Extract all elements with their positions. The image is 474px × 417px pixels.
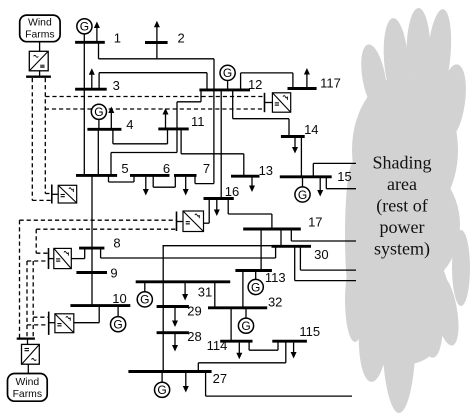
svg-text:G: G <box>80 20 89 34</box>
svg-text:12: 12 <box>248 77 262 92</box>
svg-text:area: area <box>387 174 417 194</box>
svg-text:10: 10 <box>112 291 126 306</box>
svg-text:15: 15 <box>337 169 351 184</box>
svg-text:32: 32 <box>268 295 282 310</box>
svg-text:G: G <box>94 105 103 119</box>
svg-text:G: G <box>241 319 250 333</box>
svg-text:4: 4 <box>126 117 133 132</box>
svg-text:power: power <box>380 217 425 237</box>
svg-text:6: 6 <box>163 161 170 176</box>
svg-text:29: 29 <box>187 304 201 319</box>
svg-text:13: 13 <box>259 163 273 178</box>
svg-text:27: 27 <box>213 371 227 386</box>
svg-text:Wind: Wind <box>28 18 52 29</box>
svg-text:7: 7 <box>203 161 210 176</box>
svg-text:G: G <box>113 318 122 332</box>
svg-text:Farms: Farms <box>25 30 54 41</box>
svg-text:115: 115 <box>299 324 320 339</box>
svg-text:G: G <box>251 280 260 294</box>
svg-text:2: 2 <box>177 31 184 46</box>
svg-text:14: 14 <box>304 122 318 137</box>
svg-text:G: G <box>298 188 307 202</box>
svg-text:5: 5 <box>121 161 128 176</box>
svg-text:16: 16 <box>225 184 239 199</box>
svg-text:117: 117 <box>320 76 341 91</box>
svg-text:17: 17 <box>308 214 322 229</box>
svg-text:G: G <box>140 293 149 307</box>
svg-text:G: G <box>157 383 166 397</box>
svg-text:114: 114 <box>207 338 228 353</box>
svg-text:(rest of: (rest of <box>376 196 427 217</box>
svg-text:Wind: Wind <box>15 377 39 388</box>
svg-text:9: 9 <box>110 266 117 281</box>
svg-text:11: 11 <box>191 114 205 129</box>
svg-text:8: 8 <box>113 236 120 251</box>
svg-text:1: 1 <box>114 31 121 46</box>
svg-text:31: 31 <box>198 285 212 300</box>
svg-text:113: 113 <box>265 270 286 285</box>
svg-text:Farms: Farms <box>13 389 42 400</box>
svg-text:3: 3 <box>113 78 120 93</box>
svg-text:30: 30 <box>314 247 328 262</box>
svg-text:G: G <box>223 66 232 80</box>
svg-text:28: 28 <box>187 329 201 344</box>
svg-text:system): system) <box>374 239 430 260</box>
svg-text:Shading: Shading <box>372 153 431 173</box>
